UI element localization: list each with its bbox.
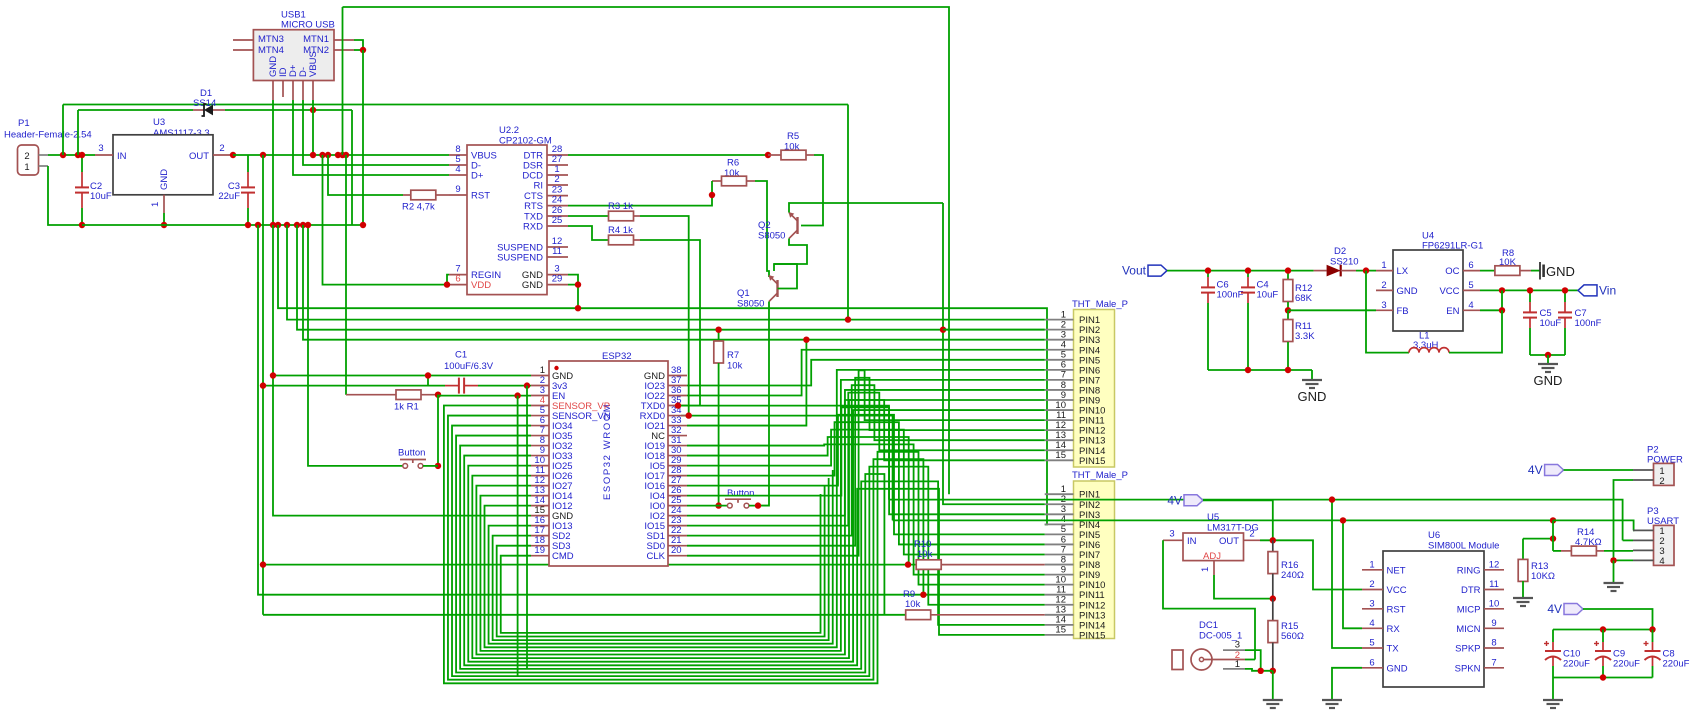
pin U2-4 D+	[449, 174, 467, 176]
pin USB1 MTN2	[334, 49, 354, 51]
ground GND under C5 C7	[1547, 355, 1549, 364]
svg-text:4: 4	[1369, 618, 1374, 629]
pin U4-3 FB	[1376, 309, 1393, 311]
wire P1-2 to U3 IN	[48, 154, 95, 156]
wire DC1-2 riser	[1245, 659, 1255, 661]
pin P3-2	[1633, 539, 1654, 541]
pin ESP32-34 RXD0	[668, 415, 687, 417]
node junction (527,385.6)	[524, 382, 530, 388]
wire ESP32 IO26 bottom bundle	[472, 400, 1044, 658]
pin ESP32-36 IO22	[668, 395, 687, 397]
pin ESP32-32 NC	[668, 435, 687, 437]
wire ESP32 SD1 arch to header	[687, 385, 1045, 535]
node junction (342.5,155)	[339, 152, 345, 158]
node junction (1548,355)	[1545, 352, 1551, 358]
wire R10 long line	[263, 564, 917, 566]
svg-text:25: 25	[552, 215, 563, 226]
svg-text:MICN: MICN	[1456, 624, 1480, 635]
node junction (1248,370)	[1245, 367, 1251, 373]
pin P2-2	[1633, 479, 1654, 481]
wire descender x=322.5 to U2 VDD	[323, 155, 448, 285]
wire DC1-3 to ground node	[1245, 650, 1261, 671]
node junction (1208,270.6)	[1205, 267, 1211, 273]
pin ESP32-30 IO18	[668, 455, 687, 457]
svg-text:5: 5	[1468, 280, 1473, 291]
svg-text:4: 4	[455, 164, 460, 175]
svg-text:CLK: CLK	[647, 551, 666, 562]
wire 4V to U5 OUT node	[1203, 500, 1273, 540]
pin U2-27 DSR	[547, 164, 568, 166]
pin P2-1	[1633, 469, 1654, 471]
svg-text:SPKN: SPKN	[1455, 663, 1481, 674]
svg-text:7: 7	[1491, 657, 1496, 668]
capacitor C7 100nF	[1564, 290, 1566, 302]
wire descender x=297 line-C to header1 PIN2	[297, 225, 1045, 330]
wire R14 to P3-3	[1604, 550, 1633, 552]
wire ESP32 IO19 arch to header	[687, 444, 1045, 574]
pin header1-6 PIN6	[1045, 369, 1074, 371]
ground rail y=225	[82, 224, 363, 226]
pin U6-7 SPKN	[1484, 667, 1504, 669]
node junction (1652.5,629.5)	[1649, 626, 1655, 632]
wire R1 button vertical	[437, 395, 439, 466]
wire descender x=287 line-B to header1 PIN1 riser	[287, 225, 848, 320]
pin U3-1 GND	[163, 195, 165, 213]
node junction (1343,520.4)	[1340, 517, 1346, 523]
wire U6 GND to ground	[1332, 668, 1362, 700]
node junction (943,329.7)	[940, 327, 946, 333]
wire ESP32 IO21 to header1 PIN3	[687, 340, 1045, 426]
ground below capacitor bank	[1552, 699, 1554, 701]
pin header1-7 PIN7	[1045, 379, 1074, 381]
svg-text:U3: U3	[153, 117, 165, 128]
wire EN drop to bottom lattice	[517, 396, 519, 676]
ground below R13	[1522, 597, 1524, 599]
svg-text:100nF: 100nF	[1575, 318, 1602, 329]
pin DC1-1	[1223, 668, 1245, 670]
svg-text:VBUS: VBUS	[308, 51, 319, 77]
svg-text:MICP: MICP	[1457, 604, 1481, 615]
wire EN row	[438, 394, 531, 397]
pin U6-4 RX	[1362, 627, 1383, 629]
capacitor C10 220uF polarized	[1552, 630, 1554, 643]
wire USB D- to U2 pin5	[303, 100, 449, 165]
svg-text:GND: GND	[1546, 264, 1575, 279]
net flag 4V at U5	[1184, 495, 1203, 506]
capacitor C3 22uF	[247, 155, 249, 172]
node junction (718.6,505.6)	[715, 502, 721, 508]
wire U2 GND3 GND29 join and drop	[568, 275, 578, 285]
svg-text:S8050: S8050	[758, 231, 785, 242]
svg-text:CMD: CMD	[552, 551, 574, 562]
node junction (1272.8,598.6)	[1270, 595, 1276, 601]
wire IO0 row to button	[687, 505, 727, 507]
svg-text:VDD: VDD	[471, 280, 491, 291]
pin header2-14 PIN14	[1045, 624, 1074, 626]
svg-text:RI: RI	[534, 181, 544, 192]
pin U6-8 SPKP	[1484, 647, 1504, 649]
svg-text:Button: Button	[398, 448, 425, 459]
svg-text:220uF: 220uF	[1563, 659, 1590, 670]
node junction (263,155)	[260, 152, 266, 158]
svg-text:Q1: Q1	[737, 288, 750, 299]
node junction (363,50)	[360, 47, 366, 53]
svg-text:C1: C1	[455, 350, 467, 361]
pin U6-6 GND	[1362, 667, 1383, 669]
wire MTN1 MTN2 join	[354, 40, 363, 50]
svg-text:3: 3	[1381, 300, 1386, 311]
pin P1-2	[39, 154, 49, 156]
wire R5 to Q2 base	[801, 155, 823, 226]
wire USB GND drop x=273	[272, 100, 274, 225]
pin ESP32-28 IO17	[668, 475, 687, 477]
wire ESP32 GND row	[273, 375, 531, 377]
svg-text:10KΩ: 10KΩ	[1531, 571, 1555, 582]
pin header2-1 PIN1	[1045, 493, 1074, 495]
svg-text:6: 6	[1468, 260, 1473, 271]
node junction (308,225)	[305, 222, 311, 228]
wire top net y=7 from USB MTN to header2 PIN1	[343, 7, 950, 494]
wire net 943 Q2-emitter to header2 PIN2	[943, 203, 1045, 504]
pin U2-28 DTR	[547, 154, 568, 156]
wire button-left vertical x=308	[308, 225, 403, 466]
svg-text:2: 2	[1381, 280, 1386, 291]
pin header2-12 PIN12	[1045, 604, 1074, 606]
node junction (908,564.6)	[905, 561, 911, 567]
svg-text:2: 2	[1249, 529, 1254, 540]
wire ESP32 IO34 bottom bundle	[452, 426, 1045, 677]
pin U4-4 EN	[1463, 309, 1480, 311]
wire C5 C7 ground rail	[1530, 354, 1565, 356]
pin U2-24 RTS	[547, 205, 568, 207]
node junction (1502,290.4)	[1499, 287, 1505, 293]
svg-text:15: 15	[1055, 450, 1066, 461]
node junction (297,225)	[294, 222, 300, 228]
pin U2-5 D-	[449, 164, 467, 166]
pin ESP32-13 IO14	[531, 495, 549, 497]
wire descender x=258 to header2 PIN11 long line	[258, 225, 1045, 595]
node junction (1553,538.6)	[1550, 535, 1556, 541]
svg-text:22uF: 22uF	[218, 191, 240, 202]
wire P1-1 to ground rail	[48, 166, 82, 225]
wire ESP32 IO32 bottom bundle	[460, 446, 1045, 669]
node junction (263,385.6)	[260, 382, 266, 388]
pin U5-1 ADJ	[1213, 561, 1215, 575]
svg-text:10uF: 10uF	[90, 191, 112, 202]
wire net A tail to P3-2	[1623, 539, 1633, 541]
wire ESP32 IO25 bottom bundle	[468, 410, 1044, 662]
pin ESP32-29 IO5	[668, 465, 687, 467]
pin ESP32-2 3v3	[531, 385, 549, 387]
svg-text:1: 1	[1381, 260, 1386, 271]
wire REGIN-VDD loop	[447, 275, 449, 285]
wire divider node vertical	[1552, 520, 1554, 551]
wire ESP32 IO5 arch to header	[687, 430, 1045, 555]
wire vertical x=352 D1 line down to ground rail	[351, 110, 353, 225]
wire FB line	[1288, 309, 1376, 311]
node junction (438,465.9)	[435, 463, 441, 469]
ground bar GND after R8	[1531, 270, 1540, 272]
pin ESP32-12 IO27	[531, 485, 549, 487]
capacitor C5 10uF	[1529, 290, 1531, 302]
svg-text:IN: IN	[117, 151, 127, 162]
pin ESP32-18 SD3	[531, 545, 549, 547]
node junction (1553,520.4)	[1550, 517, 1556, 523]
wire riser x=78 to D1 rail	[77, 110, 79, 155]
pin header2-15 PIN15	[1045, 634, 1074, 636]
wire DTR to R5	[568, 154, 768, 156]
pin header1-8 PIN8	[1045, 389, 1074, 391]
pin ESP32-38 GND	[668, 375, 687, 377]
svg-text:RTS: RTS	[524, 201, 543, 212]
node junction (578,308.2)	[575, 305, 581, 311]
wire Q1 collector down to IO0 row	[758, 302, 769, 506]
wire net VBUS-5V top rail y=104.5	[63, 104, 848, 106]
svg-text:DC1: DC1	[1199, 620, 1218, 631]
pin ESP32-10 IO25	[531, 465, 549, 467]
pin header1-3 PIN3	[1045, 339, 1074, 341]
node junction (1613.5,560.4)	[1610, 557, 1616, 563]
wire R6 right down to Q1 emitter	[755, 181, 769, 277]
svg-text:RING: RING	[1457, 565, 1481, 576]
pin ESP32-17 SD2	[531, 535, 549, 537]
wire 4V to P2-1	[1564, 469, 1633, 471]
wire capacitor bank top rail	[1553, 629, 1653, 631]
svg-text:220uF: 220uF	[1663, 659, 1690, 670]
svg-text:VCC: VCC	[1439, 286, 1459, 297]
wire U3 GND to rail	[163, 213, 165, 225]
node junction (82,225)	[79, 222, 85, 228]
pin ESP32-5 SENSOR_VN	[531, 415, 549, 417]
node junction (1288,310.3)	[1285, 307, 1291, 313]
wire RXD0 drop to UART net B	[687, 416, 893, 521]
node junction (1565,290.4)	[1562, 287, 1568, 293]
pin header1-10 PIN10	[1045, 409, 1074, 411]
svg-text:IN: IN	[1187, 536, 1197, 547]
wire ESP32 SD2 bottom bundle	[493, 478, 829, 640]
node junction (82,155)	[79, 152, 85, 158]
pin U6-11 DTR	[1484, 589, 1504, 591]
node junction (1502,310.3)	[1499, 307, 1505, 313]
pin USB1 ID	[282, 81, 284, 98]
wire R9 long line	[263, 614, 906, 616]
wire ESP32 IO17 arch to header	[687, 422, 1045, 544]
pin USB1 D-	[302, 81, 304, 101]
svg-text:Vout: Vout	[1122, 264, 1147, 278]
svg-text:4: 4	[1659, 556, 1664, 567]
node junction (303,225)	[300, 222, 306, 228]
svg-text:GND: GND	[1298, 389, 1327, 404]
svg-text:12: 12	[1489, 559, 1500, 570]
svg-text:1: 1	[1200, 567, 1211, 572]
wire ESP32 IO23 to header1 PIN5	[687, 360, 1045, 386]
wire descender x=273 GND to ESP32 GND row and GND15	[273, 225, 531, 516]
svg-text:RXD: RXD	[523, 222, 543, 233]
resistor R2 4.7k	[403, 194, 411, 196]
wire ground stem P3	[1613, 560, 1615, 583]
pin U4-6 OC	[1463, 270, 1480, 272]
svg-text:1k R1: 1k R1	[394, 402, 419, 413]
wire 3.3V rail y=155 from U3 OUT to U2 VBUS	[233, 154, 449, 156]
wire USB VBUS down	[312, 100, 314, 155]
wire U5 IN from DC1 plus	[1163, 540, 1255, 659]
pin ESP32-25 IO0	[668, 505, 687, 507]
pin USB1 VBUS	[312, 81, 314, 101]
pin header2-13 PIN13	[1045, 614, 1074, 616]
pin ESP32-37 IO23	[668, 385, 687, 387]
svg-text:U2.2: U2.2	[499, 125, 519, 136]
pin header2-5 PIN5	[1045, 533, 1074, 535]
pin U6-2 VCC	[1362, 589, 1383, 591]
node junction (1603,629.5)	[1600, 626, 1606, 632]
node junction (1260.7,670.8)	[1258, 668, 1264, 674]
pin U2-2 RI	[547, 184, 568, 186]
svg-text:Button: Button	[727, 488, 754, 499]
node junction (273,375.5)	[270, 372, 276, 378]
wire descender x=328 to R2/RST line	[328, 155, 403, 195]
pin ESP32-26 IO4	[668, 495, 687, 497]
svg-text:11: 11	[1489, 579, 1499, 590]
pin ESP32-14 IO12	[531, 505, 549, 507]
svg-text:Q2: Q2	[758, 220, 771, 231]
capacitor C6 100nF	[1207, 271, 1209, 277]
wire riser x=342.5 to top y=7 net	[342, 7, 344, 155]
wire Q1 base link	[774, 264, 797, 289]
svg-text:29: 29	[552, 274, 563, 285]
wire Vout rail to D2	[1167, 270, 1314, 272]
pin USB1 GND	[272, 81, 274, 101]
svg-text:1: 1	[1369, 559, 1374, 570]
svg-text:10k: 10k	[727, 361, 743, 372]
node junction (258,225)	[255, 222, 261, 228]
pin header2-4 PIN4	[1045, 523, 1074, 525]
pin U2-8 VBUS	[449, 154, 467, 156]
svg-text:10k: 10k	[905, 599, 921, 610]
node junction (428,375.5)	[425, 372, 431, 378]
node junction (328,155)	[325, 152, 331, 158]
svg-text:19: 19	[534, 545, 545, 556]
pin U2-23 CTS	[547, 195, 568, 197]
pin U2-11 SUSPEND	[547, 256, 568, 258]
svg-text:SS210: SS210	[1330, 257, 1359, 268]
svg-text:4V: 4V	[1167, 493, 1182, 507]
pin header1-13 PIN13	[1045, 439, 1074, 441]
pin header2-9 PIN9	[1045, 574, 1074, 576]
pin header1-5 PIN5	[1045, 359, 1074, 361]
wire ESP32 IO15 arch to header	[687, 393, 1045, 526]
node junction (447,284.6)	[444, 281, 450, 287]
svg-text:R7: R7	[727, 350, 739, 361]
svg-text:U6: U6	[1428, 530, 1440, 541]
svg-text:3: 3	[98, 143, 103, 154]
pin header2-10 PIN10	[1045, 584, 1074, 586]
wire ESP32 SD0 arch to header	[687, 378, 1045, 546]
node junction (1603,677.5)	[1600, 674, 1606, 680]
svg-text:OC: OC	[1445, 266, 1459, 277]
pin ESP32-7 IO35	[531, 435, 549, 437]
svg-text:GND: GND	[1534, 373, 1563, 388]
svg-text:9: 9	[455, 184, 460, 195]
wire 4V to capacitor bank	[1583, 609, 1653, 630]
svg-text:ADJ: ADJ	[1203, 551, 1221, 562]
svg-text:GND: GND	[1387, 663, 1408, 674]
capacitor C4 10uF	[1247, 271, 1249, 277]
node junction (517.6,395.6)	[514, 392, 520, 398]
pin U6-3 RST	[1362, 608, 1383, 610]
svg-text:SUSPEND: SUSPEND	[497, 253, 543, 264]
pin ESP32-16 IO13	[531, 525, 549, 527]
node junction (248,225)	[245, 222, 251, 228]
node junction (1530,290.4)	[1527, 287, 1533, 293]
wire P2-2 to ground	[1614, 480, 1634, 560]
capacitor C9 220uF polarized	[1602, 630, 1604, 643]
wire ESP32 IO14 bottom bundle	[480, 380, 1044, 651]
wire D2 to LX	[1356, 270, 1376, 272]
svg-text:P1: P1	[18, 118, 30, 129]
net flag 4V at capacitors	[1564, 604, 1583, 615]
pin header2-3 PIN3	[1045, 513, 1074, 515]
node junction (1332,499.6)	[1329, 496, 1335, 502]
pin USB1 D+	[292, 81, 294, 101]
node junction (1288,270.6)	[1285, 267, 1291, 273]
svg-text:R2 4,7k: R2 4,7k	[402, 202, 435, 213]
pin U6-1 NET	[1362, 569, 1383, 571]
pin header1-2 PIN2	[1045, 329, 1074, 331]
svg-text:RST: RST	[471, 191, 490, 202]
pin ESP32-22 SD1	[668, 535, 687, 537]
wire EN tie to VCC	[1480, 290, 1502, 310]
node junction (806.4,339.7) line-D join	[803, 337, 809, 343]
svg-text:DTR: DTR	[1461, 585, 1481, 596]
pin header1-4 PIN4	[1045, 349, 1074, 351]
node junction (164,225)	[161, 222, 167, 228]
wire UART net A long line to SIM800 TX and P3-2	[889, 500, 1362, 648]
ground below P3	[1613, 582, 1615, 584]
pin ESP32-1 GND	[531, 375, 549, 377]
wire net 5V D1 rail y=110	[78, 109, 193, 111]
svg-text:GND: GND	[522, 280, 543, 291]
svg-text:SPKP: SPKP	[1455, 644, 1480, 655]
wire ESP32 IO2 arch to header	[687, 400, 1045, 516]
node junction (313,155)	[310, 152, 316, 158]
wire ESP32 IO27 bottom bundle	[476, 390, 1044, 655]
pin U4-1 LX	[1376, 270, 1393, 272]
wire ESP32 SENSOR_VN bottom bundle	[448, 416, 923, 680]
pin P3-1	[1633, 529, 1654, 531]
svg-text:1: 1	[150, 202, 161, 207]
svg-text:2: 2	[1369, 579, 1374, 590]
wire to ground below R15	[1272, 671, 1274, 700]
svg-text:220uF: 220uF	[1613, 659, 1640, 670]
node junction (758,505.6)	[755, 502, 761, 508]
pin U6-5 TX	[1362, 647, 1383, 649]
svg-text:Vin: Vin	[1599, 283, 1616, 297]
wire R4 right down to TXD0	[640, 240, 700, 406]
pin header1-12 PIN12	[1045, 429, 1074, 431]
wire ESP32 IO18 arch to header	[687, 437, 909, 565]
svg-text:EN: EN	[1446, 306, 1459, 317]
svg-text:GND: GND	[1397, 286, 1418, 297]
pin header1-15 PIN15	[1045, 459, 1074, 461]
node junction (712,195)	[709, 192, 715, 198]
node junction (578,284.6)	[575, 281, 581, 287]
pin header1-1 PIN1	[1045, 319, 1074, 321]
pin header1-11 PIN11	[1045, 419, 1074, 421]
svg-text:4V: 4V	[1547, 602, 1562, 616]
svg-text:FB: FB	[1397, 306, 1409, 317]
svg-text:10: 10	[1489, 598, 1500, 609]
pin U6-9 MICN	[1484, 627, 1504, 629]
